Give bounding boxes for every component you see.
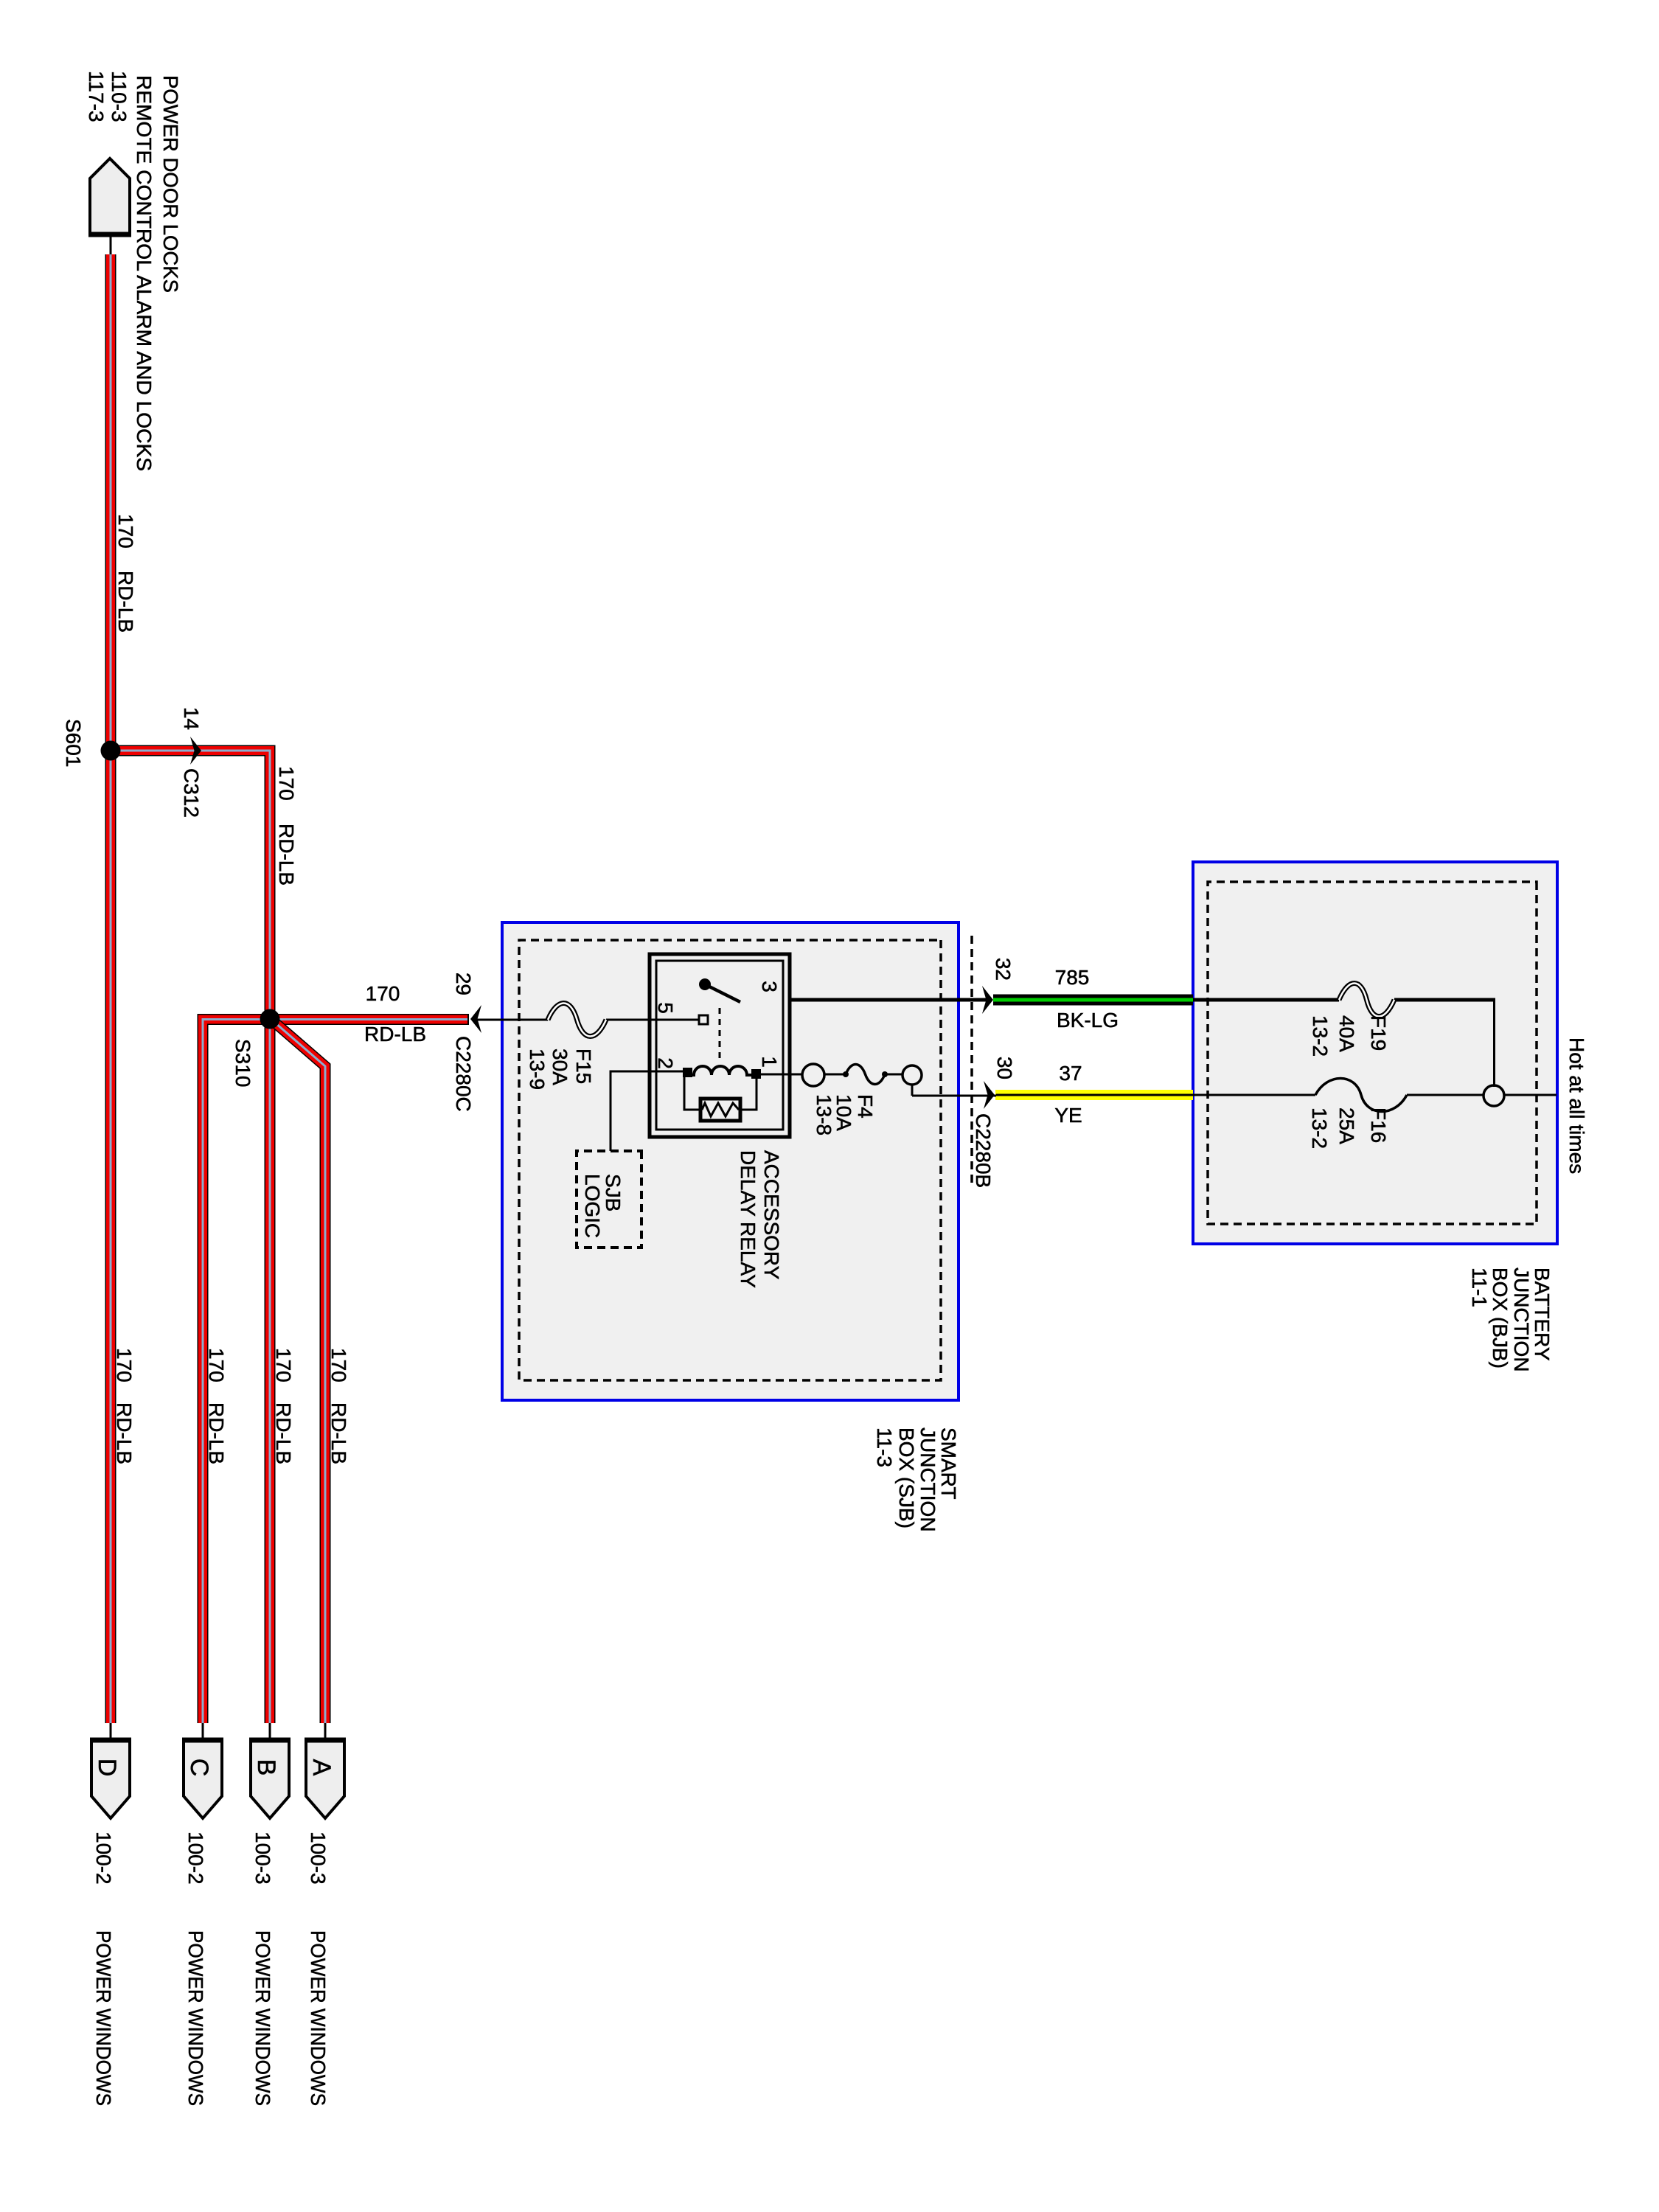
svg-text:785: 785	[1055, 966, 1090, 989]
svg-text:JUNCTION: JUNCTION	[1510, 1267, 1533, 1372]
label 170 RD-LB wire D left	[114, 514, 137, 633]
relay resistor	[684, 1073, 757, 1121]
svg-text:RD-LB: RD-LB	[205, 1402, 228, 1464]
svg-text:DELAY RELAY: DELAY RELAY	[737, 1150, 759, 1288]
svg-text:C: C	[185, 1759, 213, 1777]
svg-text:117-3: 117-3	[85, 71, 108, 122]
relay switch	[699, 978, 740, 1002]
svg-text:170: 170	[205, 1348, 228, 1382]
svg-text:3: 3	[758, 981, 781, 992]
wire RD-LB C2280C to S310 to C	[203, 1020, 469, 1724]
svg-text:14: 14	[180, 707, 203, 730]
svg-text:170: 170	[366, 982, 400, 1005]
svg-text:5: 5	[654, 1002, 677, 1014]
wire 785 BK-LG green	[993, 995, 1193, 1006]
svg-text:C2280B: C2280B	[972, 1113, 995, 1188]
splice S601	[101, 741, 121, 761]
svg-text:RD-LB: RD-LB	[364, 1023, 426, 1046]
wire A branch diagonal	[270, 1018, 325, 1723]
svg-text:1: 1	[758, 1056, 781, 1068]
label 170 RD-LB wire B corner	[275, 766, 298, 886]
label 170 RD-LB wire D right	[113, 1348, 136, 1464]
wire pin3 feed thick black (relay to BJB)	[740, 998, 1495, 1002]
svg-text:F4: F4	[854, 1094, 877, 1119]
svg-text:BK-LG: BK-LG	[1057, 1009, 1119, 1032]
svg-text:RD-LB: RD-LB	[327, 1402, 350, 1464]
svg-text:170: 170	[327, 1348, 350, 1382]
svg-text:RD-LB: RD-LB	[275, 824, 298, 886]
svg-text:C2280C: C2280C	[452, 1036, 475, 1112]
svg-text:Hot at all times: Hot at all times	[1565, 1037, 1588, 1174]
pin 32 arrow	[982, 986, 993, 1014]
svg-text:13-9: 13-9	[526, 1048, 549, 1090]
wire F16 vertical thin	[996, 1094, 1557, 1096]
relay armature dashed link	[719, 1008, 721, 1060]
svg-text:F19: F19	[1367, 1015, 1390, 1051]
svg-text:F16: F16	[1367, 1107, 1390, 1143]
svg-text:REMOTE CONTROL ALARM AND LOCKS: REMOTE CONTROL ALARM AND LOCKS	[133, 75, 156, 471]
junction ring	[1484, 1085, 1504, 1106]
wire pin1 to F4	[761, 1074, 996, 1096]
svg-text:100-3: 100-3	[251, 1832, 274, 1885]
svg-text:100-2: 100-2	[184, 1832, 207, 1885]
wire pin2 to SJB logic	[611, 1071, 683, 1151]
connector C	[182, 1723, 223, 1818]
svg-text:POWER WINDOWS: POWER WINDOWS	[184, 1930, 207, 2106]
svg-text:POWER WINDOWS: POWER WINDOWS	[251, 1930, 274, 2106]
wire 37 YE yellow	[995, 1090, 1193, 1100]
label power door locks	[133, 75, 182, 471]
svg-text:11-1: 11-1	[1468, 1267, 1491, 1307]
svg-text:B: B	[252, 1759, 280, 1776]
BJB label	[1468, 1267, 1554, 1372]
svg-text:13-2: 13-2	[1308, 1107, 1331, 1149]
label 170 RD-LB wire B right	[272, 1348, 295, 1464]
svg-text:LOGIC: LOGIC	[581, 1174, 604, 1238]
svg-text:D: D	[93, 1759, 121, 1777]
relay coil	[683, 1066, 761, 1079]
connector B	[249, 1723, 291, 1818]
svg-text:YE: YE	[1054, 1104, 1082, 1127]
svg-text:29: 29	[452, 973, 475, 995]
svg-text:100-2: 100-2	[92, 1832, 115, 1885]
svg-text:10A: 10A	[832, 1094, 855, 1131]
svg-text:170: 170	[113, 1348, 136, 1382]
fuse F15	[526, 1004, 606, 1091]
svg-text:100-3: 100-3	[307, 1832, 330, 1885]
svg-text:ACCESSORY: ACCESSORY	[760, 1150, 783, 1280]
svg-text:13-8: 13-8	[813, 1094, 835, 1135]
svg-text:170: 170	[114, 514, 137, 549]
splice S310	[260, 1009, 280, 1029]
junction circle F4 lower	[802, 1064, 824, 1086]
wire pin5 to F15 to C2280C	[473, 1019, 699, 1021]
smart junction box SJB	[502, 922, 959, 1400]
svg-text:JUNCTION: JUNCTION	[917, 1427, 939, 1532]
connector D	[90, 1723, 131, 1818]
svg-text:32: 32	[992, 958, 1015, 981]
power door locks connector	[88, 159, 131, 254]
svg-text:C312: C312	[180, 768, 203, 818]
svg-text:170: 170	[275, 766, 298, 801]
svg-text:S601: S601	[62, 719, 85, 767]
connector destination labels	[92, 1832, 330, 2106]
svg-text:13-2: 13-2	[1309, 1015, 1332, 1057]
svg-text:A: A	[307, 1759, 335, 1776]
svg-text:F15: F15	[572, 1048, 595, 1084]
fuse F19	[1309, 984, 1394, 1057]
svg-text:RD-LB: RD-LB	[114, 571, 137, 633]
svg-text:110-3: 110-3	[108, 71, 131, 122]
SJB LOGIC box	[577, 1151, 641, 1248]
svg-text:25A: 25A	[1335, 1107, 1358, 1144]
svg-text:S310: S310	[232, 1039, 254, 1087]
svg-text:RD-LB: RD-LB	[272, 1402, 295, 1464]
relay pin 5 contact	[699, 1015, 708, 1024]
svg-text:37: 37	[1059, 1062, 1082, 1085]
junction circle F4 upper	[902, 1065, 922, 1085]
relay box outer	[650, 954, 790, 1137]
svg-text:BOX (BJB): BOX (BJB)	[1489, 1267, 1512, 1368]
svg-text:2: 2	[654, 1057, 677, 1069]
svg-text:SMART: SMART	[937, 1427, 960, 1500]
svg-text:11-3: 11-3	[873, 1427, 896, 1467]
svg-text:BOX (SJB): BOX (SJB)	[895, 1427, 918, 1528]
connector A	[305, 1723, 346, 1818]
svg-text:170: 170	[272, 1348, 295, 1382]
svg-text:30: 30	[993, 1057, 1016, 1079]
svg-text:SJB: SJB	[602, 1174, 625, 1211]
svg-text:30A: 30A	[549, 1048, 571, 1085]
relay box inner	[656, 961, 783, 1130]
battery junction box BJB	[1193, 862, 1557, 1244]
svg-text:POWER WINDOWS: POWER WINDOWS	[307, 1930, 330, 2106]
label 170 RD-LB wire A	[327, 1348, 350, 1464]
connector C312 arrow	[190, 737, 201, 765]
pin 30 arrow	[984, 1081, 995, 1109]
fuse F16	[1308, 1079, 1407, 1150]
label 170 RD-LB wire C	[205, 1348, 228, 1464]
connector C2280B dashed line	[970, 936, 973, 1184]
fuse F4	[813, 1065, 888, 1136]
label ACCESSORY DELAY RELAY	[737, 1150, 783, 1288]
wire B branch S601 to C312 to S310 to B	[111, 751, 270, 1723]
svg-text:POWER WINDOWS: POWER WINDOWS	[92, 1930, 115, 2106]
SJB label	[873, 1427, 960, 1532]
wire D main RD-LB	[105, 254, 116, 1723]
svg-text:POWER DOOR LOCKS: POWER DOOR LOCKS	[159, 75, 182, 293]
svg-text:BATTERY: BATTERY	[1531, 1267, 1554, 1361]
svg-text:40A: 40A	[1335, 1015, 1358, 1052]
svg-text:RD-LB: RD-LB	[113, 1402, 136, 1464]
connector C2280C arrow	[470, 1005, 481, 1033]
